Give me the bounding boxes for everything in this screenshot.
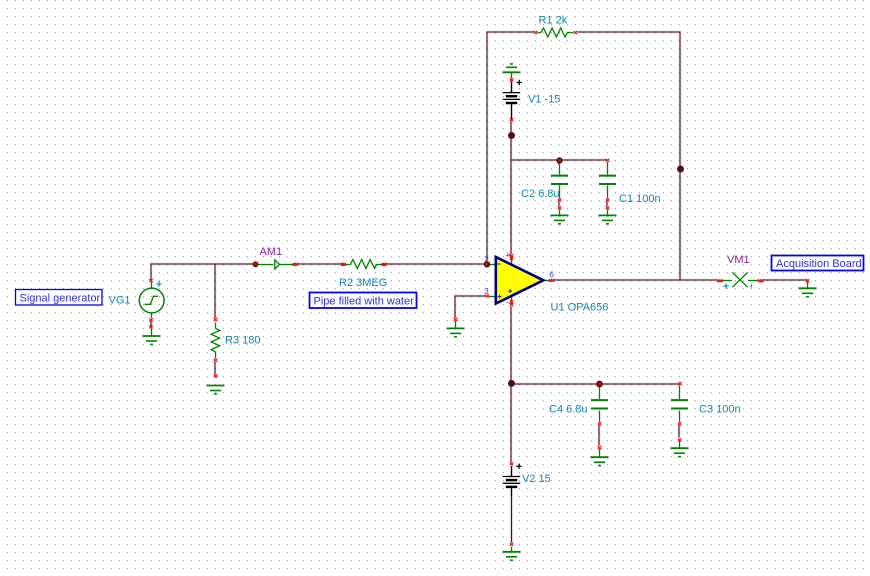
svg-text:4: 4 <box>504 253 511 257</box>
svg-text:C1 100n: C1 100n <box>619 193 661 205</box>
svg-text:Acquisition Board: Acquisition Board <box>776 258 862 270</box>
svg-text:2: 2 <box>484 254 489 264</box>
svg-text:C2 6.8u: C2 6.8u <box>521 188 560 200</box>
svg-text:7: 7 <box>504 301 511 305</box>
svg-text:C4 6.8u: C4 6.8u <box>549 404 588 416</box>
svg-text:U1 OPA656: U1 OPA656 <box>551 302 609 314</box>
svg-text:6: 6 <box>549 269 554 279</box>
svg-text:C3 100n: C3 100n <box>699 404 741 416</box>
svg-text:R2 3MEG: R2 3MEG <box>339 277 387 289</box>
svg-text:3: 3 <box>484 286 489 296</box>
svg-text:R1 2k: R1 2k <box>539 14 568 26</box>
svg-text:R3 180: R3 180 <box>225 335 260 347</box>
svg-text:VM1: VM1 <box>727 254 750 266</box>
svg-text:Signal generator: Signal generator <box>20 292 101 304</box>
svg-text:Pipe filled with water: Pipe filled with water <box>314 295 415 307</box>
svg-text:V1 -15: V1 -15 <box>528 94 560 106</box>
svg-text:VG1: VG1 <box>109 295 131 307</box>
svg-text:AM1: AM1 <box>260 246 283 258</box>
svg-text:V2 15: V2 15 <box>522 473 551 485</box>
